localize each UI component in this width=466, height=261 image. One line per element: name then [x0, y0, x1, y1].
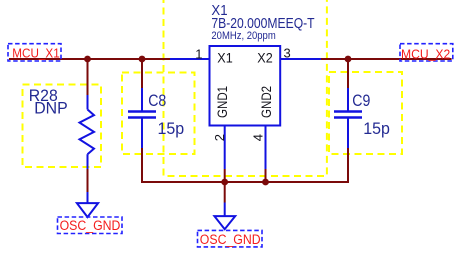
- wire: pin 4 to bus: [265, 169, 267, 182]
- svg-text:GND1: GND1: [214, 86, 230, 118]
- junction dot at pin 4 on bus: [262, 179, 269, 186]
- DNP highlight box around R28: [23, 85, 102, 168]
- wire: bus tap down to OSC_GND symbol: [224, 182, 226, 203]
- pin 4 lead: [265, 126, 267, 170]
- capacitor C8: [128, 88, 156, 148]
- off-page connector MCU_X2: [400, 44, 453, 61]
- pin 3 lead: [280, 58, 321, 60]
- wire: pin 3 to MCU_X2 stub: [321, 58, 452, 60]
- svg-text:DNP: DNP: [34, 99, 67, 117]
- svg-text:3: 3: [284, 46, 291, 61]
- junction dot at R28 branch: [84, 56, 91, 63]
- wire: pin 2 to bus: [224, 169, 226, 182]
- junction dot at C8 branch: [139, 56, 146, 63]
- svg-text:X2: X2: [257, 50, 272, 66]
- wire: C9 branch vertical: [347, 59, 349, 88]
- wire: R28 branch vertical: [87, 59, 89, 95]
- svg-text:MCU_X2: MCU_X2: [401, 47, 450, 61]
- svg-text:MCU_X1: MCU_X1: [12, 46, 60, 61]
- pin 2 lead: [224, 126, 226, 170]
- svg-text:1: 1: [195, 46, 202, 61]
- svg-text:2: 2: [212, 134, 227, 141]
- svg-text:X1: X1: [217, 50, 232, 66]
- svg-text:OSC_GND: OSC_GND: [60, 217, 121, 233]
- power symbol OSC_GND under crystal: [214, 203, 235, 230]
- wire: R28 bottom to OSC_GND symbol: [87, 169, 89, 192]
- junction dot at pin 2 / ground tap on bus: [221, 179, 228, 186]
- pin 1 lead: [170, 58, 210, 60]
- svg-text:C9: C9: [352, 92, 370, 110]
- svg-text:4: 4: [251, 134, 266, 141]
- power symbol OSC_GND under R28: [77, 192, 98, 217]
- net label OSC_GND (middle): [198, 230, 263, 247]
- crystal X1 body: [170, 46, 321, 169]
- svg-text:15p: 15p: [363, 120, 390, 138]
- DNP highlight box around C8: [122, 73, 195, 155]
- svg-text:20MHz, 20ppm: 20MHz, 20ppm: [211, 29, 276, 42]
- svg-text:C8: C8: [148, 92, 166, 110]
- capacitor C9: [334, 88, 362, 148]
- svg-text:OSC_GND: OSC_GND: [200, 231, 261, 247]
- wire: MCU_X1 stub to X1 pin 1: [9, 58, 170, 60]
- resistor R28: [80, 95, 95, 169]
- svg-text:15p: 15p: [158, 120, 185, 138]
- junction dot at C9 branch: [345, 56, 352, 63]
- net label OSC_GND (left): [58, 217, 123, 234]
- off-page connector MCU_X1: [8, 44, 61, 61]
- DNP highlight box around C9: [329, 72, 402, 154]
- wire: C8 branch vertical: [141, 59, 143, 88]
- svg-text:GND2: GND2: [258, 86, 274, 118]
- wire: ground bus C8 bottom to C9 bottom: [142, 148, 348, 182]
- DNP highlight box around crystal X1 (large yellow dashed, cut at top): [164, 0, 327, 176]
